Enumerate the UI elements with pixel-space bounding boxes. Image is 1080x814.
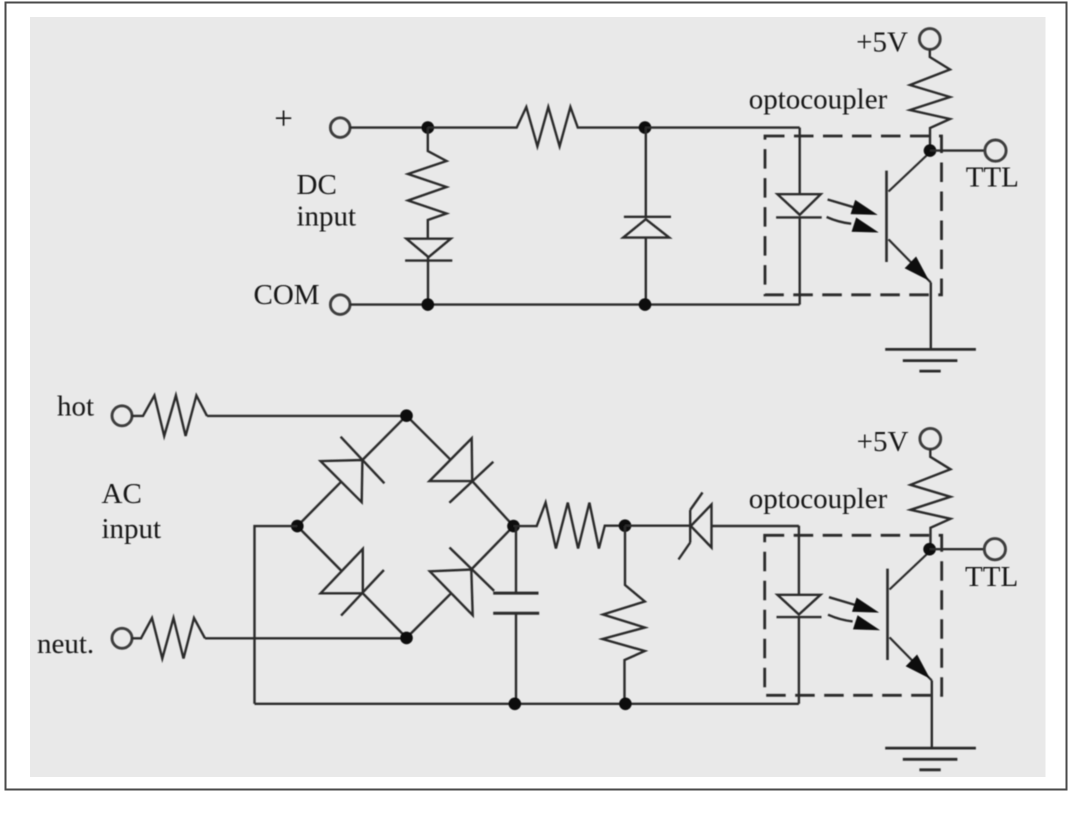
terminal TTL (bottom) xyxy=(984,539,1005,560)
resistor R9 (shunt, vertical) xyxy=(603,526,645,704)
wire node D to zener xyxy=(625,525,690,527)
bridge top node xyxy=(400,409,413,422)
terminal TTL (top) xyxy=(985,140,1006,161)
diode D2 (clamp, vertical at node B) xyxy=(645,128,647,217)
wire + terminal to node A xyxy=(350,126,422,128)
resistor R7 (neutral series) xyxy=(132,618,205,659)
node on COM rail below D2 xyxy=(639,298,652,311)
resistor R6 (hot series) xyxy=(132,396,207,437)
bridge right node xyxy=(507,520,520,533)
wire Q1 emitter to ground xyxy=(930,283,932,350)
svg-text:neut.: neut. xyxy=(37,628,94,660)
node bottom rail at C1 xyxy=(509,698,522,711)
optocoupler U1 dashed box xyxy=(765,136,942,295)
node on COM rail below R1 xyxy=(422,298,435,311)
svg-text:COM: COM xyxy=(254,279,320,311)
ground (bottom circuit) xyxy=(885,747,976,750)
terminal +5V (bottom) xyxy=(920,428,941,449)
svg-text:TTL: TTL xyxy=(965,561,1018,593)
bridge diode D6 (bottom to right) xyxy=(407,593,452,638)
light arrows U1 xyxy=(828,200,854,208)
svg-text:input: input xyxy=(102,513,162,545)
bridge diode D5 (left to bottom) xyxy=(297,526,341,571)
LED of optocoupler U2 xyxy=(798,526,800,595)
wire Q2 emitter to ground xyxy=(931,681,933,749)
svg-text:AC: AC xyxy=(102,478,142,510)
light arrows U2 xyxy=(829,597,855,605)
svg-text:+5V: +5V xyxy=(857,426,909,458)
wire node B to optocoupler LED xyxy=(645,126,800,128)
node B junction xyxy=(639,121,652,134)
svg-text:optocoupler: optocoupler xyxy=(749,483,888,515)
bottom rail wire xyxy=(255,703,799,705)
svg-text:hot: hot xyxy=(57,390,94,422)
diode D1 (below R1) xyxy=(406,239,450,258)
bridge left node xyxy=(291,520,304,533)
resistor R10 pull-up (bottom) xyxy=(911,449,951,549)
svg-text:input: input xyxy=(297,201,357,233)
svg-text:TTL: TTL xyxy=(966,162,1019,194)
node C collector junction xyxy=(924,144,937,157)
wire hot resistor to bridge top node xyxy=(207,415,407,417)
node E collector junction (bottom) xyxy=(923,543,936,556)
bridge diode D4 (top to right) xyxy=(407,416,451,460)
capacitor C1 xyxy=(515,526,517,593)
wire COM rail xyxy=(350,303,800,305)
node D (zener junction) xyxy=(619,519,632,532)
svg-text:+: + xyxy=(274,101,293,137)
terminal DC + input xyxy=(330,118,350,138)
bridge bottom node xyxy=(400,632,413,645)
terminal hot xyxy=(112,406,132,426)
zener diode Z1 xyxy=(691,505,712,548)
wire node E to TTL terminal xyxy=(930,548,985,550)
phototransistor Q1 xyxy=(885,171,888,262)
resistor R5 pull-up (top) xyxy=(910,50,950,151)
phototransistor Q2 xyxy=(886,569,889,660)
bridge diode D3 (left to top) xyxy=(297,482,341,526)
wire bridge left node to bottom rail xyxy=(255,526,298,704)
resistor R1 (DC input series, vertical) xyxy=(408,128,447,239)
optocoupler U2 dashed box xyxy=(765,535,942,695)
node bottom rail at R9 xyxy=(619,698,632,711)
svg-text:optocoupler: optocoupler xyxy=(749,84,888,116)
terminal COM xyxy=(330,295,350,315)
wire neut resistor to bridge bottom node xyxy=(205,637,407,639)
ground (top circuit) xyxy=(885,348,976,351)
resistor R2 (top rail, horizontal) xyxy=(428,107,639,146)
svg-text:+5V: +5V xyxy=(856,27,908,59)
wire node C to TTL terminal xyxy=(930,149,985,151)
resistor R8 (bridge output series, horizontal) xyxy=(514,503,620,549)
terminal +5V (top) xyxy=(919,29,940,50)
terminal neut xyxy=(112,628,132,648)
LED of optocoupler U1 xyxy=(799,128,801,195)
svg-text:DC: DC xyxy=(297,169,337,201)
node A junction xyxy=(422,121,435,134)
